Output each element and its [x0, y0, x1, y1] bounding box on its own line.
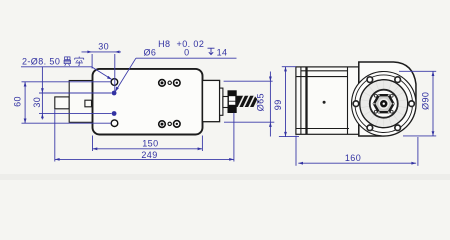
hole group bottom	[159, 121, 180, 128]
svg-text:H8: H8	[158, 39, 170, 49]
dim 99: dimension line	[285, 67, 287, 137]
hex vertex dots	[373, 94, 394, 113]
svg-text:60: 60	[13, 96, 23, 107]
hanzi chuan	[75, 57, 84, 66]
flange bolt 0deg	[409, 101, 415, 107]
dim 160: dimension line	[298, 162, 416, 164]
dim 150: extension lines	[92, 136, 94, 152]
svg-text:14: 14	[217, 48, 228, 58]
dim 150: dimension line	[93, 148, 203, 150]
clamp top edge	[301, 70, 348, 72]
hole group top	[159, 80, 180, 87]
hex nut	[374, 95, 394, 112]
mount notch	[85, 100, 92, 107]
dim 30 left: dimension line with outside arrows	[41, 67, 43, 93]
collet nut	[228, 91, 236, 112]
spindle body	[93, 69, 203, 135]
svg-text:160: 160	[345, 153, 361, 163]
shaded annulus	[365, 85, 403, 123]
svg-text:249: 249	[141, 150, 157, 160]
dim 30 left: extension lines	[39, 92, 112, 94]
svg-text:Ø90: Ø90	[420, 92, 430, 110]
radial shading lines	[361, 81, 407, 127]
spindle nose	[203, 80, 220, 121]
clamp top inner line	[296, 76, 348, 78]
screw dot on motor face	[323, 101, 326, 104]
dim 160: extension lines	[295, 136, 297, 166]
leader 2-8.50: shelf and arrow to hole	[21, 66, 92, 68]
svg-text:150: 150	[142, 139, 158, 149]
mount block	[69, 81, 92, 123]
face screw NW	[374, 94, 377, 97]
motor inner vertical thick	[305, 67, 307, 134]
svg-text:99: 99	[273, 99, 283, 110]
hole 8.5 top	[111, 79, 118, 86]
mount tongue	[55, 97, 69, 109]
dim 65: dimension line with outside arrows	[269, 72, 271, 137]
spindle boss circle	[370, 90, 398, 118]
clamp right vertical	[347, 67, 349, 134]
flange bolt 300deg	[395, 125, 401, 131]
svg-text:Ø6: Ø6	[143, 48, 156, 58]
drill bit	[236, 95, 260, 107]
flange bolt 240deg	[367, 125, 373, 131]
clamp bottom inner line	[296, 128, 349, 130]
center hole	[378, 98, 389, 109]
flange bolt 180deg	[353, 101, 359, 107]
head silhouette	[359, 62, 416, 136]
nose step	[220, 88, 223, 115]
dim 30 top: dimension line with outside arrows	[82, 51, 122, 53]
flange recess circle	[360, 80, 408, 128]
hole 6 bottom (blue dot)	[112, 111, 117, 116]
dim 90: extension lines	[399, 70, 436, 72]
face screw SW	[374, 110, 377, 113]
flange bolt 60deg	[395, 77, 401, 83]
svg-text:30: 30	[32, 97, 42, 108]
dim 90: dimension line	[432, 71, 434, 136]
hanzi guan	[64, 57, 70, 66]
face screw NE	[390, 94, 393, 97]
collet shaft	[223, 97, 228, 108]
svg-text:0: 0	[184, 48, 189, 58]
flange bolt 120deg	[367, 77, 373, 83]
leader 6: shelf and arrow to blue dot	[136, 57, 237, 59]
flange outer circle	[352, 72, 416, 136]
hole 8.5 bottom	[111, 120, 118, 127]
motor section outline	[296, 67, 359, 134]
svg-text:+0. 02: +0. 02	[177, 39, 205, 49]
dim 30 top: extension lines	[91, 54, 93, 69]
dim 249: extension lines	[54, 110, 56, 162]
flange ring	[355, 75, 413, 133]
face screw SE	[390, 110, 393, 113]
hole 6 top (blue dot)	[112, 91, 117, 96]
svg-text:Ø65: Ø65	[255, 93, 265, 111]
svg-text:30: 30	[98, 42, 109, 52]
motor inner vertical thin	[300, 67, 302, 134]
dim 60 left: dimension line	[24, 82, 26, 123]
depth symbol	[208, 48, 215, 54]
svg-text:2-Ø8. 50: 2-Ø8. 50	[22, 57, 60, 67]
dim 99: extension lines	[282, 66, 296, 68]
dim 249: dimension line	[55, 158, 234, 160]
dim 60 left: extension lines	[22, 81, 112, 83]
dim 65: extension lines	[224, 80, 273, 82]
